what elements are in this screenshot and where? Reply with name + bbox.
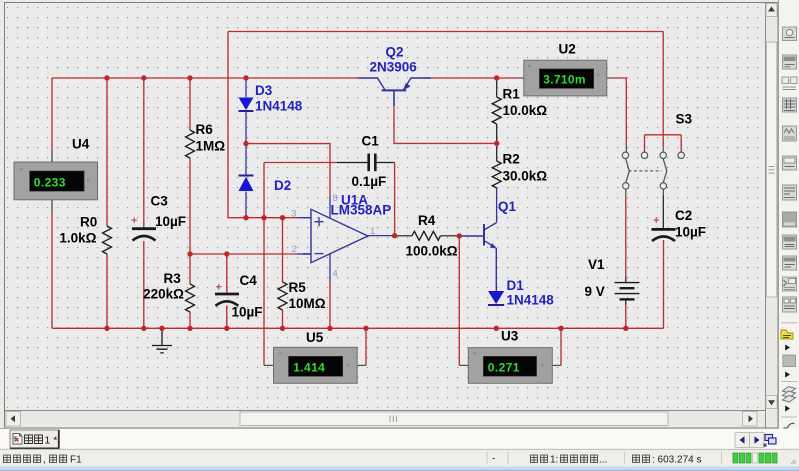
svg-text:10µF: 10µF (675, 225, 706, 240)
svg-text:D2: D2 (274, 178, 291, 193)
capacitor C4 (215, 294, 239, 306)
svg-text:3.710m: 3.710m (543, 73, 586, 87)
svg-text:1N4148: 1N4148 (507, 293, 555, 308)
svg-text:0.233: 0.233 (34, 175, 66, 189)
wire U5 right up to rail (365, 328, 367, 365)
svg-text:0.271: 0.271 (488, 360, 520, 374)
toolbar icon probe (782, 423, 794, 433)
wire U3 left stub (459, 364, 468, 366)
wire C1 right lead to output node (376, 162, 395, 164)
svg-text:0.1µF: 0.1µF (352, 174, 387, 189)
svg-text:10µF: 10µF (232, 305, 263, 320)
svg-text:C2: C2 (675, 208, 692, 223)
wire U5 left stub (264, 364, 274, 366)
svg-text:,: , (43, 454, 46, 465)
capacitor C1 (369, 154, 376, 172)
svg-text:R1: R1 (503, 87, 521, 102)
svg-text:2N3906: 2N3906 (370, 60, 418, 75)
svg-text:-: - (492, 454, 495, 465)
svg-text:1.0kΩ: 1.0kΩ (59, 231, 96, 246)
svg-text:Q2: Q2 (386, 45, 404, 60)
toolbar icon distortion analyzer (783, 277, 797, 291)
toolbar icon layered sheets (783, 387, 796, 403)
wire R1 bottom lead (496, 124, 498, 143)
svg-text:2: 2 (292, 244, 297, 255)
svg-text:4: 4 (333, 269, 338, 280)
tab nav button right (750, 433, 765, 448)
wire main rail y78 right segment (421, 77, 520, 79)
svg-text:...: ... (599, 454, 607, 465)
svg-text:D3: D3 (255, 83, 273, 98)
horizontal scrollbar (5, 411, 765, 428)
wire R6 R3 branch x190 (189, 78, 191, 328)
status elapsed field (633, 454, 702, 465)
toolbar expand arrow 2 (785, 372, 790, 378)
svg-text:U2: U2 (559, 42, 576, 57)
voltmeter U4 (14, 162, 98, 200)
svg-text:+: + (216, 282, 222, 294)
toolbar separator 2 (781, 381, 797, 383)
toolbar icon wattmeter (782, 77, 797, 90)
wire C3 branch x143.8 (143, 78, 145, 328)
wire Q2 base down and over to divider (393, 91, 395, 106)
op-amp U1A (303, 209, 368, 262)
wire output node to R4 (395, 235, 412, 237)
wire node A to opamp pin8 (246, 144, 330, 196)
svg-text:30.0kΩ: 30.0kΩ (503, 169, 548, 184)
resistor R5 (278, 282, 287, 310)
svg-text:C1: C1 (362, 134, 380, 149)
toolbar separator 3 (781, 416, 797, 418)
switch S3 (622, 152, 684, 189)
wire opamp output to node (368, 235, 395, 237)
tab document icon (13, 434, 22, 445)
wire U5 right stub (357, 364, 366, 366)
svg-text:U4: U4 (72, 137, 90, 152)
wire U2 right stub (607, 77, 612, 79)
wire C2 bottom to rail corner (663, 240, 665, 328)
svg-text:10MΩ: 10MΩ (289, 296, 326, 311)
simulation progress blocks (733, 453, 777, 463)
wire U3 right stub (552, 364, 561, 366)
wire R2 bottom to Q1 collector (496, 188, 498, 223)
active tab (10, 430, 59, 448)
transistor Q2 (358, 78, 431, 106)
wire diode chain x246 (245, 78, 247, 218)
wire C1 left lead (264, 162, 337, 164)
wire Q1 base node down to U3 (458, 236, 460, 365)
wire S3 pole1 to battery top (625, 189, 627, 196)
wire R0 branch x107 (106, 78, 108, 328)
svg-text:R3: R3 (164, 271, 182, 286)
svg-text:U5: U5 (306, 330, 324, 345)
status simulating field (531, 454, 608, 465)
vertical scrollbar (766, 3, 778, 428)
svg-text:R0: R0 (80, 215, 97, 230)
toolbar icon network analyzer (783, 297, 797, 312)
capacitor C3 (132, 229, 156, 241)
wire battery bottom to rail (625, 305, 627, 329)
wire left branch x52 upper (51, 78, 53, 150)
transistor Q1 (459, 223, 496, 291)
wire R1 top lead (496, 78, 498, 97)
svg-text:220kΩ: 220kΩ (143, 287, 184, 302)
right toolbar panel (779, 0, 799, 448)
tab title (25, 435, 33, 444)
status bar (0, 449, 799, 466)
wire left drop from upper rail to pin3 row (227, 32, 229, 218)
toolbar icon logic converter (783, 235, 797, 249)
svg-text:+: + (653, 215, 659, 227)
voltmeter U3 (468, 348, 552, 384)
svg-text:Q1: Q1 (498, 199, 517, 214)
wire R5 branch x282.5 (282, 218, 284, 329)
resistor R1 (492, 97, 501, 124)
status help text (4, 454, 83, 465)
svg-text:R4: R4 (418, 213, 436, 228)
svg-text:3: 3 (291, 209, 296, 220)
tab nav button left (735, 433, 750, 448)
svg-text:1MΩ: 1MΩ (196, 139, 226, 154)
tab bar row (0, 429, 799, 450)
svg-text:C4: C4 (240, 273, 258, 288)
toolbar icon function generator (783, 55, 797, 69)
resize grip (791, 460, 796, 464)
svg-text:F1: F1 (70, 454, 82, 465)
svg-text:R6: R6 (196, 122, 214, 137)
wire R2 top lead (496, 143, 498, 161)
battery V1 (615, 277, 640, 305)
toolbar icon bode plotter (783, 126, 797, 141)
workspace switch icon (764, 435, 776, 447)
svg-text:R2: R2 (503, 152, 520, 167)
svg-text:D1: D1 (507, 278, 525, 293)
resistor R0 (103, 226, 112, 254)
resistor R3 (186, 284, 195, 312)
svg-text:C3: C3 (151, 194, 169, 209)
toolbar separator (781, 322, 797, 324)
ammeter U2 (524, 60, 607, 96)
toolbar icon IV analyzer (783, 256, 797, 270)
wire R4 to Q1 base node (441, 235, 460, 237)
wire U2 left stub (519, 77, 524, 79)
toolbar icon logic analyzer (783, 212, 797, 227)
svg-text:R5: R5 (289, 280, 307, 295)
diode D2 (239, 176, 254, 192)
wire S3 bracket joining throws (645, 135, 682, 148)
svg-text:1: 1 (370, 226, 375, 237)
resistor R2 (492, 161, 501, 188)
wire U3 right up to rail (560, 328, 562, 365)
wire pin3 row (228, 217, 297, 219)
svg-text:U3: U3 (501, 329, 519, 344)
toolbar icon gray block (783, 355, 796, 367)
capacitor C2 (652, 229, 676, 241)
svg-text:: 603.274 s: : 603.274 s (652, 454, 701, 465)
wire right drop from upper rail to S3 throw (662, 32, 664, 148)
svg-text:10µF: 10µF (155, 214, 186, 229)
svg-text:1.414: 1.414 (293, 361, 325, 375)
ground (152, 328, 172, 353)
wire main rail y78 left segment (52, 77, 358, 79)
bottom blue strip (0, 467, 799, 471)
diode D1 (488, 291, 504, 305)
svg-text:100.0kΩ: 100.0kΩ (406, 244, 458, 259)
svg-text:1N4148: 1N4148 (255, 99, 303, 114)
svg-text:8: 8 (333, 193, 338, 204)
toolbar expand arrow 1 (785, 345, 790, 351)
svg-text:+: + (131, 215, 137, 227)
wire opamp pin8 stub (329, 196, 331, 218)
toolbar icon agilent source (yellow) (781, 330, 793, 339)
svg-text:9 V: 9 V (585, 284, 605, 299)
resistor R4 (412, 231, 441, 240)
svg-text:1:: 1: (550, 454, 558, 465)
toolbar icon multimeter (783, 27, 797, 41)
svg-text:S3: S3 (676, 112, 693, 127)
diode D3 (239, 98, 254, 112)
toolbar expand arrow 3 (785, 406, 790, 412)
wire C1-left / U5 vertical x264 (263, 163, 265, 366)
toolbar icon oscilloscope (783, 98, 797, 112)
wire S3 pole2 to C2 top (662, 189, 664, 195)
toolbar icon counter (783, 156, 797, 170)
svg-text:1 *: 1 * (45, 434, 58, 446)
svg-text:LM358AP: LM358AP (331, 203, 392, 218)
resistor R6 (186, 130, 195, 158)
voltmeter U5 (274, 347, 358, 383)
svg-text:V1: V1 (588, 257, 605, 272)
svg-text:10.0kΩ: 10.0kΩ (503, 103, 548, 118)
wire U2 right to S3 left throw (612, 78, 627, 145)
wire pin2 row (190, 253, 297, 255)
wire top rail V+ upper (228, 31, 663, 33)
wire opamp pin4 down (329, 254, 331, 281)
wire bottom rail (52, 327, 664, 329)
wire C4 branch x226.8 (226, 254, 228, 328)
toolbar icon word generator (783, 185, 797, 200)
wire left branch x52 lower (51, 200, 53, 212)
